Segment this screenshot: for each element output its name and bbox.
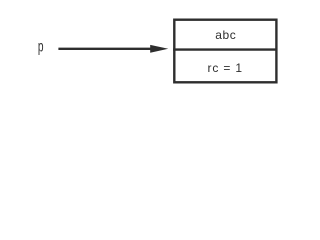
svg-text:rc = 1: rc = 1 [207, 61, 242, 75]
svg-text:p: p [38, 37, 44, 55]
svg-text:abc: abc [215, 28, 236, 42]
